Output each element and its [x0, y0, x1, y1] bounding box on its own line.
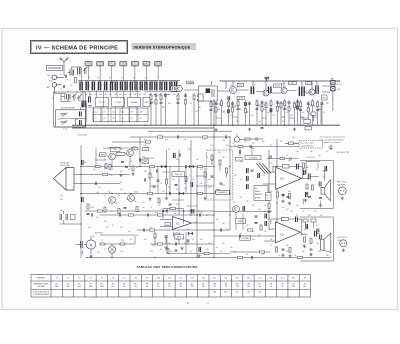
wire matrix drop	[109, 91, 111, 98]
resistor R82	[289, 194, 291, 199]
svg-text:10n: 10n	[239, 109, 242, 111]
wire matrix drop	[102, 91, 104, 108]
jack socket HP2	[340, 240, 347, 247]
wire long vertical B	[196, 167, 198, 258]
wire matrix drop long	[136, 107, 138, 123]
svg-text:REPERE: REPERE	[37, 278, 46, 280]
svg-text:100: 100	[146, 147, 149, 149]
svg-text:330: 330	[258, 163, 261, 165]
coil L20	[316, 85, 318, 94]
junction	[213, 193, 214, 194]
svg-text:31,5: 31,5	[239, 85, 242, 87]
junction	[80, 193, 81, 194]
resistor R84	[312, 185, 314, 190]
svg-text:2n: 2n	[97, 77, 99, 79]
capacitor Cm19	[143, 228, 144, 231]
svg-text:120: 120	[263, 109, 266, 111]
svg-text:330: 330	[198, 107, 201, 109]
ground IF1	[214, 128, 217, 131]
resistor Rm34	[102, 173, 107, 175]
junction	[213, 214, 214, 215]
output section frame 2	[300, 217, 333, 261]
label BALANCE	[216, 190, 230, 194]
switch section box 2	[112, 98, 125, 107]
T1 collector chain	[184, 93, 187, 125]
ground section 2	[309, 253, 312, 256]
svg-text:195: 195	[134, 286, 137, 288]
svg-text:4,7: 4,7	[326, 151, 328, 153]
svg-text:10µ: 10µ	[93, 169, 96, 171]
IF transformer FI3	[251, 87, 253, 95]
svg-text:158B: 158B	[89, 286, 93, 288]
svg-text:6,8k: 6,8k	[91, 207, 94, 209]
resistor Rm27	[247, 229, 252, 231]
junction	[80, 223, 81, 224]
svg-text:22n: 22n	[120, 182, 123, 184]
resistor R56	[136, 207, 138, 212]
ground frame 1b	[319, 204, 322, 207]
jack socket HP1	[338, 187, 346, 195]
svg-text:0,1: 0,1	[168, 149, 170, 151]
svg-text:T9: T9	[146, 278, 148, 280]
svg-text:n22: n22	[310, 151, 313, 153]
svg-text:68: 68	[282, 121, 284, 123]
svg-text:914: 914	[258, 291, 261, 293]
coil pack L7	[91, 81, 95, 90]
tuner section outline	[54, 92, 86, 127]
svg-text:GO: GO	[99, 64, 103, 66]
capacitor Cm16	[147, 213, 148, 216]
ground bottom centre	[197, 254, 200, 257]
capacitor C63	[256, 138, 257, 141]
wire CV to rail	[76, 119, 86, 126]
svg-text:119: 119	[213, 286, 216, 288]
svg-text:1k5: 1k5	[128, 169, 131, 171]
output electrolytic C83	[308, 174, 314, 180]
capacitor Cm26	[239, 234, 240, 237]
capacitor Cm22	[175, 242, 176, 245]
svg-text:56k: 56k	[88, 227, 91, 229]
ground decoder 5	[148, 197, 151, 200]
svg-text:BF: BF	[123, 283, 125, 285]
svg-text:AFC: AFC	[145, 63, 150, 66]
label box small	[132, 147, 138, 150]
svg-text:2,2: 2,2	[192, 179, 194, 181]
wire vertical G	[190, 140, 192, 215]
svg-text:4,7k: 4,7k	[222, 185, 225, 187]
wire vertical H	[276, 139, 278, 224]
IF bias chain 23	[321, 101, 324, 125]
svg-text:2,2k: 2,2k	[296, 109, 299, 111]
wire motor	[75, 236, 91, 254]
padder capacitor C7	[80, 120, 82, 126]
transistor T3	[263, 90, 269, 96]
svg-text:n5: n5	[145, 77, 147, 79]
svg-text:T7: T7	[123, 278, 125, 280]
electrolytic C29	[228, 96, 230, 100]
svg-text:4,7k: 4,7k	[304, 229, 307, 231]
IF transformer FI4	[269, 87, 271, 94]
coil L1	[68, 70, 74, 76]
svg-text:D8: D8	[292, 278, 294, 280]
label box C100	[173, 233, 180, 236]
svg-text:2,2k: 2,2k	[230, 115, 233, 117]
IF bias chain 3	[221, 99, 223, 125]
resistor Rm15	[128, 214, 133, 216]
svg-text:220: 220	[246, 201, 249, 203]
oscillator coil L4	[82, 101, 86, 108]
resistor Rm6	[149, 165, 154, 167]
regulator bridge	[108, 246, 115, 253]
coupling element	[116, 153, 125, 156]
coil pack L13	[139, 81, 147, 90]
svg-text:2,2: 2,2	[310, 255, 312, 257]
svg-text:2,2k: 2,2k	[188, 149, 191, 151]
resistor R59	[219, 160, 221, 165]
diode pair D5	[161, 165, 166, 168]
svg-text:56: 56	[234, 145, 236, 147]
svg-text:470: 470	[142, 202, 145, 204]
junction	[213, 257, 214, 258]
junction	[178, 193, 179, 194]
svg-text:56k: 56k	[306, 167, 309, 169]
junction	[190, 166, 191, 167]
subtitle VERSION STEREOPHONIQUE	[132, 43, 197, 50]
ground HP2	[342, 249, 345, 252]
svg-text:T8: T8	[134, 278, 136, 280]
feedback resistor R77	[163, 208, 184, 224]
label VOLUME	[245, 156, 261, 160]
wire bottom centre	[167, 232, 230, 254]
padder capacitor C6	[80, 112, 82, 117]
svg-text:OC-BE: OC-BE	[115, 102, 122, 104]
svg-text:MOTEUR: MOTEUR	[95, 233, 103, 235]
junction	[213, 125, 214, 126]
wire jack leads	[57, 77, 64, 85]
speaker HP droite	[317, 229, 331, 253]
svg-text:T11: T11	[168, 278, 171, 280]
bias label box T2	[237, 83, 244, 86]
svg-text:2,2k: 2,2k	[186, 229, 189, 231]
resistor Rm31	[97, 210, 102, 212]
svg-text:IC2: IC2	[280, 178, 285, 181]
capacitor C87b	[319, 198, 322, 199]
electrolytic C69	[265, 214, 267, 219]
speaker HP gauche	[319, 171, 330, 201]
svg-text:56k: 56k	[326, 103, 329, 105]
svg-text:1k: 1k	[190, 103, 192, 105]
svg-text:31,5 V: 31,5 V	[337, 84, 343, 86]
wire left rail	[80, 145, 82, 258]
svg-text:330: 330	[290, 115, 293, 117]
wire pushbutton GO stub	[99, 66, 101, 82]
svg-text:56k: 56k	[286, 245, 289, 247]
svg-text:K1: K1	[95, 118, 97, 120]
resistor R57c	[185, 177, 187, 182]
capacitor C60b	[175, 185, 178, 186]
wire matrix drop long	[93, 107, 95, 123]
svg-text:10µ: 10µ	[296, 151, 299, 153]
IF bias chain 11	[265, 101, 267, 125]
IF bias chain 6	[237, 99, 240, 125]
wire detector out	[322, 79, 333, 111]
svg-text:K2: K2	[104, 118, 106, 120]
IF bias chain 7	[245, 100, 247, 125]
function table box	[254, 186, 268, 201]
junction	[166, 166, 167, 167]
feedback network U1	[273, 164, 303, 179]
wire decoder stubs	[196, 176, 214, 186]
wire decoder verticals	[150, 167, 205, 194]
wire matrix drop	[96, 91, 98, 98]
resistor R1	[75, 78, 77, 83]
svg-text:2,2: 2,2	[112, 169, 114, 171]
IF bias chain 8	[248, 101, 251, 125]
capacitor chain RC4	[164, 93, 167, 125]
svg-text:1k: 1k	[246, 111, 248, 113]
svg-text:1,5k: 1,5k	[121, 240, 124, 242]
svg-text:C+B 31,5V: C+B 31,5V	[306, 157, 316, 159]
label VOLUME 2	[240, 236, 251, 240]
capacitor Cm5	[225, 135, 226, 138]
svg-text:2,2k: 2,2k	[262, 175, 265, 177]
svg-text:1k5: 1k5	[326, 255, 329, 257]
capacitor C92	[310, 249, 313, 250]
wire vertical I	[268, 150, 270, 230]
svg-text:10µ: 10µ	[60, 210, 63, 212]
wire matrix drop long	[100, 107, 102, 123]
transistor T10	[128, 195, 135, 202]
junction	[196, 214, 197, 215]
svg-text:C3: C3	[70, 85, 72, 87]
svg-text:par rapport au chassis: par rapport au chassis	[320, 141, 340, 144]
electrolytic C53	[82, 160, 84, 165]
switch section box 3	[128, 98, 141, 107]
svg-text:47k: 47k	[252, 143, 255, 145]
svg-text:n47: n47	[302, 112, 305, 114]
svg-text:K3: K3	[113, 118, 115, 120]
svg-text:4,7: 4,7	[216, 247, 218, 249]
resistor R62	[260, 225, 262, 230]
resistor Rm9	[197, 165, 202, 167]
dark parts at 193 211	[192, 209, 194, 214]
svg-text:56: 56	[160, 183, 162, 185]
svg-text:47n: 47n	[270, 163, 273, 165]
junction	[213, 166, 214, 167]
svg-text:D2: D2	[225, 278, 227, 280]
resistor R57d	[149, 173, 151, 178]
wire oscillator	[61, 94, 79, 102]
svg-text:M: M	[90, 243, 93, 247]
junction	[130, 193, 131, 194]
wire C70	[64, 211, 81, 224]
svg-text:2,2: 2,2	[112, 225, 114, 227]
junction	[301, 125, 302, 126]
svg-text:HP 2 Ω L.L.: HP 2 Ω L.L.	[337, 237, 348, 239]
resistor Rm4	[202, 136, 207, 138]
svg-text:470: 470	[318, 251, 321, 253]
junction	[210, 125, 211, 126]
capacitor C86	[282, 249, 285, 250]
svg-text:56k: 56k	[137, 211, 140, 213]
svg-text:132: 132	[202, 286, 205, 288]
electrolytic C86b	[306, 192, 308, 197]
svg-text:D6: D6	[270, 278, 272, 280]
svg-text:5T: 5T	[104, 112, 106, 114]
svg-text:1k: 1k	[286, 112, 288, 114]
svg-text:47n: 47n	[270, 109, 273, 111]
wire U3 io	[160, 220, 214, 227]
svg-text:10n: 10n	[184, 183, 187, 185]
pushbutton BE	[120, 61, 127, 66]
capacitor C2	[64, 85, 65, 88]
wire T1 leads	[165, 89, 198, 95]
IF bias chain 21	[311, 99, 313, 125]
svg-text:T3: T3	[78, 278, 80, 280]
wire long vertical A	[213, 99, 215, 258]
jack J1	[52, 75, 57, 80]
svg-text:10,7: 10,7	[307, 83, 310, 85]
wire pickup leads	[74, 175, 130, 184]
capacitor C78	[175, 250, 178, 251]
switch bundle diagonals	[257, 164, 272, 174]
IF bias chain 5	[231, 101, 234, 125]
resistor R61	[245, 138, 250, 140]
supply decoupling frame 1	[303, 163, 321, 204]
crystal box 38kc	[142, 159, 149, 164]
svg-text:120: 120	[217, 109, 220, 111]
resistor R81	[277, 192, 279, 197]
svg-text:47k: 47k	[176, 189, 179, 191]
resistor Rm1	[145, 141, 150, 143]
svg-text:194: 194	[123, 286, 126, 288]
pushbutton FM	[85, 61, 92, 66]
electrolytic C77	[199, 247, 201, 252]
svg-text:100: 100	[144, 171, 147, 173]
svg-text:470: 470	[120, 227, 123, 229]
svg-text:n22: n22	[216, 219, 219, 221]
svg-text:22n: 22n	[144, 125, 147, 127]
switch block outline	[93, 108, 148, 122]
below-rail part 1	[305, 126, 311, 130]
pushbutton GO	[97, 61, 104, 66]
tuning gang box CV	[56, 110, 86, 127]
svg-text:FM-AM: FM-AM	[131, 101, 138, 104]
svg-text:C9: C9	[76, 92, 78, 94]
ground frame 1	[304, 199, 307, 202]
junction	[111, 193, 112, 194]
resistor R51	[109, 165, 111, 170]
resistor chain RC1	[150, 93, 153, 125]
svg-text:IV — SCHEMA DE PRINCIPE: IV — SCHEMA DE PRINCIPE	[36, 46, 118, 52]
junction	[229, 136, 230, 137]
svg-text:GAUCHE: GAUCHE	[337, 183, 346, 186]
svg-text:100: 100	[290, 211, 293, 213]
wire matrix drop	[136, 91, 138, 98]
wire matrix drop long	[129, 107, 131, 123]
IF transformer FI2 module	[198, 86, 217, 101]
wire IF interstage	[218, 90, 309, 93]
svg-text:68: 68	[124, 193, 126, 195]
IF bias chain 13	[276, 100, 279, 125]
coil pack L12	[130, 81, 138, 90]
junction	[80, 166, 81, 167]
svg-text:102: 102	[247, 286, 250, 288]
svg-text:220: 220	[206, 215, 209, 217]
wire module internal	[212, 160, 227, 177]
svg-text:4,7k: 4,7k	[258, 106, 261, 108]
wire matrix drop	[116, 91, 118, 98]
label box gain	[165, 223, 171, 226]
svg-text:AIGU: AIGU	[177, 236, 182, 239]
svg-text:D3: D3	[236, 278, 238, 280]
svg-text:126: 126	[168, 286, 171, 288]
wire horizontal y244	[150, 243, 214, 245]
svg-text:470: 470	[280, 141, 283, 143]
svg-text:n22: n22	[258, 235, 261, 237]
svg-text:D9: D9	[304, 278, 306, 280]
svg-text:1k: 1k	[286, 155, 288, 157]
svg-text:BF: BF	[146, 283, 148, 285]
wire matrix drop	[130, 91, 132, 98]
wire matrix drop	[89, 91, 91, 98]
svg-text:1,5k: 1,5k	[120, 125, 123, 127]
electrolytic C91	[306, 224, 308, 229]
svg-text:VOLUME: VOLUME	[241, 238, 249, 240]
IF bias chain 14	[280, 101, 282, 125]
ground U2 b	[288, 254, 291, 257]
svg-text:2,2k: 2,2k	[206, 249, 209, 251]
svg-text:1k5: 1k5	[276, 203, 279, 205]
junction	[196, 193, 197, 194]
wire horizontal y137	[130, 136, 230, 138]
svg-text:47n: 47n	[220, 251, 223, 253]
svg-text:56: 56	[278, 255, 280, 257]
svg-text:100: 100	[184, 139, 187, 141]
svg-text:2,2: 2,2	[240, 219, 242, 221]
svg-text:56k: 56k	[168, 103, 171, 105]
electrolytic C57	[174, 153, 176, 158]
svg-text:VERSION STEREOPHONIQUE: VERSION STEREOPHONIQUE	[134, 45, 191, 49]
svg-text:PO-GO: PO-GO	[99, 102, 106, 104]
pushbutton AFC	[143, 61, 150, 66]
svg-text:0,1: 0,1	[240, 233, 242, 235]
junction	[213, 136, 214, 137]
resistor R71	[120, 243, 125, 245]
svg-text:10n: 10n	[184, 243, 187, 245]
electrolytic C64	[247, 168, 249, 173]
svg-text:100: 100	[182, 211, 185, 213]
svg-text:194: 194	[146, 286, 149, 288]
capacitor C85b	[287, 197, 290, 198]
coil pack L14	[149, 81, 157, 90]
svg-text:68: 68	[206, 157, 208, 159]
op-amp U2 power amplifier	[276, 222, 301, 243]
svg-text:1k: 1k	[104, 249, 106, 251]
svg-text:148B: 148B	[100, 286, 104, 288]
output electrolytic C87	[315, 231, 320, 237]
wire horizontal y257	[85, 257, 331, 259]
diode pair D7	[179, 192, 184, 195]
resistor R54	[104, 207, 106, 212]
wire U3 bottom parts	[155, 237, 188, 246]
svg-text:1k5: 1k5	[292, 137, 295, 139]
trimmer capacitor CT1	[83, 67, 88, 74]
svg-text:120: 120	[299, 109, 302, 111]
label box	[274, 84, 282, 87]
svg-text:1k: 1k	[150, 174, 152, 176]
svg-text:magnetophone: magnetophone	[300, 145, 314, 148]
